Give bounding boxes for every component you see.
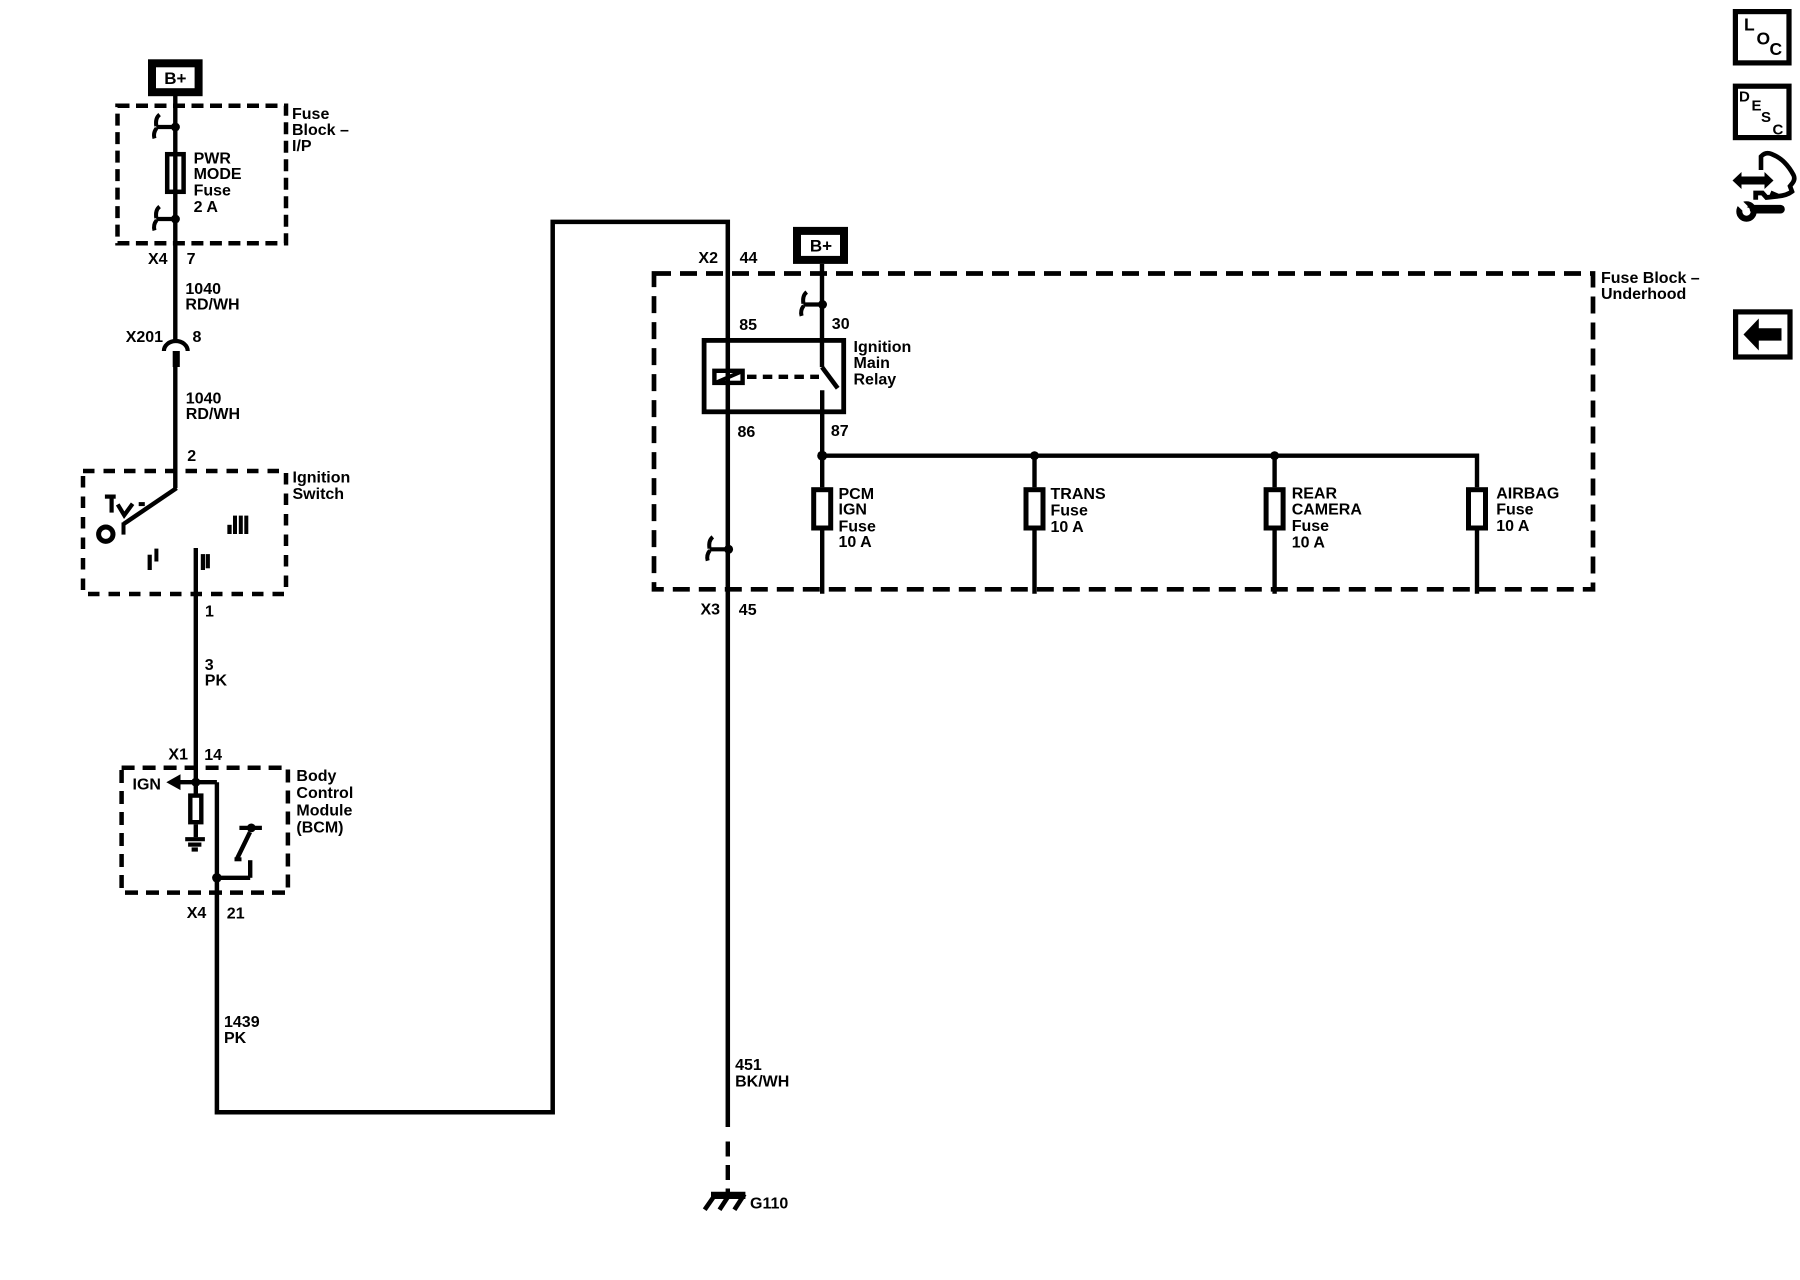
svg-text:L: L xyxy=(1744,14,1755,34)
wire taps down to fuses xyxy=(820,456,824,488)
icon DESC box xyxy=(1735,86,1789,137)
connector clip bottom of PWR MODE fuse xyxy=(154,207,180,231)
svg-text:MODE: MODE xyxy=(194,166,242,183)
BCM dashed box xyxy=(122,768,288,893)
ignition switch position I marks xyxy=(148,555,152,570)
node REAR CAMERA tap xyxy=(1270,451,1279,460)
svg-text:PK: PK xyxy=(224,1030,247,1047)
svg-text:G110: G110 xyxy=(750,1195,788,1212)
svg-text:14: 14 xyxy=(204,747,222,764)
svg-text:86: 86 xyxy=(738,424,756,441)
svg-text:Fuse: Fuse xyxy=(1051,502,1088,519)
wire BCM X4-21 to fuse block underhood X2-44 xyxy=(217,222,728,1127)
svg-text:21: 21 xyxy=(227,906,245,923)
svg-text:PK: PK xyxy=(205,673,228,690)
svg-text:451: 451 xyxy=(735,1057,762,1074)
svg-text:BK/WH: BK/WH xyxy=(735,1074,789,1091)
svg-text:44: 44 xyxy=(740,250,758,267)
fuse TRANS 10A xyxy=(1026,490,1043,528)
svg-text:30: 30 xyxy=(832,316,850,333)
battery feed B+ (relay) xyxy=(797,231,844,260)
svg-text:1: 1 xyxy=(205,603,214,620)
svg-text:10 A: 10 A xyxy=(839,534,873,551)
connector clip top of PWR MODE fuse xyxy=(154,115,180,139)
svg-text:C: C xyxy=(1770,39,1783,59)
svg-text:S: S xyxy=(1761,109,1771,126)
svg-text:Fuse Block –: Fuse Block – xyxy=(1601,270,1700,287)
svg-text:Fuse: Fuse xyxy=(1496,502,1533,519)
resistor in BCM xyxy=(190,796,201,823)
svg-text:O: O xyxy=(1757,29,1771,49)
node BCM output junction xyxy=(212,873,222,883)
svg-text:D: D xyxy=(1739,89,1750,106)
svg-text:AIRBAG: AIRBAG xyxy=(1496,485,1559,502)
svg-text:E: E xyxy=(1752,98,1762,115)
BCM switch contact xyxy=(239,826,262,830)
svg-text:Body: Body xyxy=(296,768,336,785)
svg-text:85: 85 xyxy=(739,317,757,334)
IGN arrow in BCM xyxy=(166,774,180,790)
wire B+ to relay pin 30 xyxy=(820,264,824,367)
relay actuation dashed link xyxy=(747,375,819,379)
svg-text:1439: 1439 xyxy=(224,1014,260,1031)
svg-text:Underhood: Underhood xyxy=(1601,286,1686,303)
svg-text:Fuse: Fuse xyxy=(194,183,231,200)
svg-text:Switch: Switch xyxy=(293,486,345,503)
svg-text:Ignition: Ignition xyxy=(293,470,351,487)
wire B+ to X201 connector xyxy=(173,96,177,341)
svg-text:RD/WH: RD/WH xyxy=(186,406,240,423)
fuse REAR CAMERA 10A xyxy=(1266,490,1283,528)
svg-text:Fuse: Fuse xyxy=(292,106,329,123)
svg-text:I/P: I/P xyxy=(292,138,312,155)
svg-text:Module: Module xyxy=(296,802,352,819)
fuse AIRBAG 10A xyxy=(1469,490,1486,528)
svg-text:(BCM): (BCM) xyxy=(296,820,343,837)
svg-text:X201: X201 xyxy=(126,329,163,346)
ignition switch blade xyxy=(124,488,177,524)
icon back arrow box xyxy=(1736,312,1790,357)
svg-text:7: 7 xyxy=(187,251,196,268)
svg-text:2 A: 2 A xyxy=(194,199,219,216)
svg-text:10 A: 10 A xyxy=(1496,518,1530,535)
fuse block I/P dashed box xyxy=(118,106,287,243)
svg-text:3: 3 xyxy=(205,657,214,674)
wire resistor to ground xyxy=(194,824,198,837)
wire X201 to ignition switch xyxy=(173,367,177,488)
battery feed B+ (left) xyxy=(152,63,199,92)
svg-text:IGN: IGN xyxy=(839,501,867,518)
svg-text:X4: X4 xyxy=(187,905,207,922)
svg-text:87: 87 xyxy=(831,423,849,440)
svg-text:1040: 1040 xyxy=(186,391,222,408)
fuse PWR MODE 2A xyxy=(167,154,183,192)
svg-text:B+: B+ xyxy=(810,236,832,255)
connector clip above X3 xyxy=(707,537,733,561)
svg-text:TRANS: TRANS xyxy=(1051,486,1106,503)
svg-text:PWR: PWR xyxy=(194,150,232,167)
svg-text:Ignition: Ignition xyxy=(854,339,912,356)
ignition switch pivot circle xyxy=(99,527,113,541)
svg-text:X1: X1 xyxy=(168,747,188,764)
BCM switch blade xyxy=(237,832,250,860)
relay switch blade xyxy=(822,367,838,388)
svg-text:8: 8 xyxy=(193,329,202,346)
svg-text:Control: Control xyxy=(296,785,353,802)
wire X3-45 dashed to ground xyxy=(726,1142,730,1197)
wire ignition switch pin 1 to BCM resistor xyxy=(194,548,198,796)
svg-text:IGN: IGN xyxy=(133,776,161,793)
svg-text:Relay: Relay xyxy=(854,371,897,388)
in-line connector X201 xyxy=(164,341,188,351)
svg-text:C: C xyxy=(1773,122,1784,139)
svg-text:X4: X4 xyxy=(148,251,168,268)
icon tools wrench xyxy=(1739,204,1753,218)
ground G110 xyxy=(711,1192,745,1199)
ignition switch lock position glyph xyxy=(105,495,116,499)
node TRANS tap xyxy=(1030,451,1039,460)
svg-text:X2: X2 xyxy=(698,250,718,267)
wire BCM internal branch xyxy=(215,782,219,878)
icon LOC box xyxy=(1735,12,1789,63)
svg-text:Block –: Block – xyxy=(292,122,349,139)
ignition switch position III marks xyxy=(227,525,231,534)
ignition switch position II marks xyxy=(201,554,205,570)
fuse block underhood dashed box xyxy=(654,274,1593,590)
svg-text:RD/WH: RD/WH xyxy=(185,297,239,314)
svg-text:Main: Main xyxy=(854,355,890,372)
ignition switch dashed box xyxy=(83,471,286,594)
wire fuse bus xyxy=(822,456,1477,488)
svg-text:10 A: 10 A xyxy=(1051,519,1085,536)
svg-text:2: 2 xyxy=(187,448,196,465)
svg-text:X3: X3 xyxy=(701,601,721,618)
relay coil xyxy=(714,371,742,383)
svg-text:Fuse: Fuse xyxy=(1292,518,1329,535)
svg-text:B+: B+ xyxy=(164,69,186,88)
wire relay pin 87 to fuse bus xyxy=(820,390,824,455)
node BCM input junction xyxy=(191,778,200,787)
svg-text:10 A: 10 A xyxy=(1292,535,1326,552)
svg-text:REAR: REAR xyxy=(1292,485,1338,502)
icon tools double arrow xyxy=(1733,172,1774,189)
icon tools panel outline xyxy=(1761,153,1794,196)
node pin 87 bus junction xyxy=(817,451,827,461)
svg-text:45: 45 xyxy=(739,602,757,619)
connector clip below B+ xyxy=(801,292,827,316)
svg-text:1040: 1040 xyxy=(185,281,221,298)
relay box ignition main relay xyxy=(704,340,844,411)
svg-text:CAMERA: CAMERA xyxy=(1292,502,1363,519)
fuse PCM IGN 10A xyxy=(814,490,831,528)
ground in BCM xyxy=(185,837,205,841)
wires below fuses xyxy=(820,530,824,593)
